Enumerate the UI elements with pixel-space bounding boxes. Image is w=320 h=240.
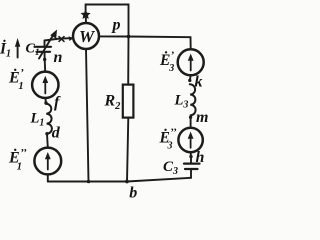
label m	[196, 109, 208, 126]
svg-text:f: f	[54, 94, 61, 111]
label n	[54, 49, 63, 66]
svg-text:Ė’3: Ė’3	[159, 50, 175, 75]
wire E1'' to bottom	[47, 175, 49, 182]
wire d to E1''	[46, 134, 49, 148]
source E3'	[178, 49, 204, 75]
top bracket wire to node p	[86, 5, 129, 37]
node d	[45, 132, 48, 135]
svg-text:L1: L1	[30, 111, 45, 129]
label h	[196, 149, 205, 166]
svg-text:C1: C1	[26, 42, 40, 59]
label E3''	[159, 126, 177, 151]
wire p to E3'	[129, 37, 191, 50]
terminal blob at W left	[69, 36, 74, 41]
label E3'	[159, 50, 175, 75]
svg-text:Ė’’3: Ė’’3	[159, 126, 177, 151]
resistor R2	[123, 85, 134, 118]
current arrow I1	[15, 38, 20, 58]
asterisk mark (current coil terminal)	[59, 37, 64, 42]
wattmeter bottom wire to bottom node	[86, 49, 89, 182]
current label I1	[0, 41, 11, 60]
svg-text:p: p	[111, 17, 121, 34]
inductor L3	[190, 84, 196, 115]
wire n to E1'	[44, 60, 47, 72]
label W	[79, 27, 96, 46]
label C3	[163, 159, 178, 177]
wattmeter W	[73, 23, 99, 49]
node h	[189, 155, 192, 158]
svg-text:d: d	[52, 125, 61, 142]
svg-text:Ė’1: Ė’1	[8, 67, 24, 92]
wattmeter top terminal wire	[85, 14, 87, 23]
star mark (voltage coil terminal)	[81, 9, 91, 19]
wire R2 to b	[127, 118, 128, 182]
label E1'	[8, 67, 24, 92]
node p	[127, 35, 131, 39]
label L1	[30, 111, 45, 129]
label R2	[104, 93, 122, 113]
wire E3'' to h	[190, 152, 192, 156]
svg-text:C3: C3	[163, 159, 178, 177]
node k	[188, 79, 191, 82]
wire m to E3''	[190, 117, 192, 128]
svg-text:n: n	[54, 49, 63, 66]
node b	[125, 180, 129, 184]
capacitor C3	[184, 157, 200, 178]
label b	[129, 185, 137, 202]
svg-text:İ1: İ1	[0, 41, 11, 60]
label E1''	[8, 147, 27, 173]
wire E1' to f	[44, 98, 47, 103]
label C1	[26, 42, 40, 59]
bottom wire	[48, 178, 191, 182]
wattmeter right terminal wire	[99, 35, 129, 37]
wire p to R2	[127, 37, 129, 85]
label d	[52, 125, 61, 142]
label k	[195, 73, 203, 90]
source E1'	[32, 72, 58, 98]
label L3	[174, 93, 189, 111]
inductor L1	[46, 104, 52, 134]
source E1''	[34, 148, 61, 175]
wire E3' to k	[189, 75, 192, 80]
svg-text:Ė’’1: Ė’’1	[8, 147, 27, 173]
svg-text:m: m	[196, 109, 208, 126]
svg-text:W: W	[79, 27, 96, 46]
node n	[43, 58, 46, 61]
node f	[44, 101, 47, 104]
svg-text:R2: R2	[104, 93, 122, 113]
capacitor C1 (variable)	[35, 30, 58, 60]
wire C1 to wattmeter	[45, 38, 74, 40]
svg-text:b: b	[129, 185, 137, 200]
node m	[189, 116, 192, 119]
label f	[54, 94, 61, 111]
label p	[111, 17, 121, 34]
source E3''	[178, 128, 202, 152]
junction dot (W bottom)	[87, 180, 91, 184]
svg-text:L3: L3	[174, 93, 189, 111]
